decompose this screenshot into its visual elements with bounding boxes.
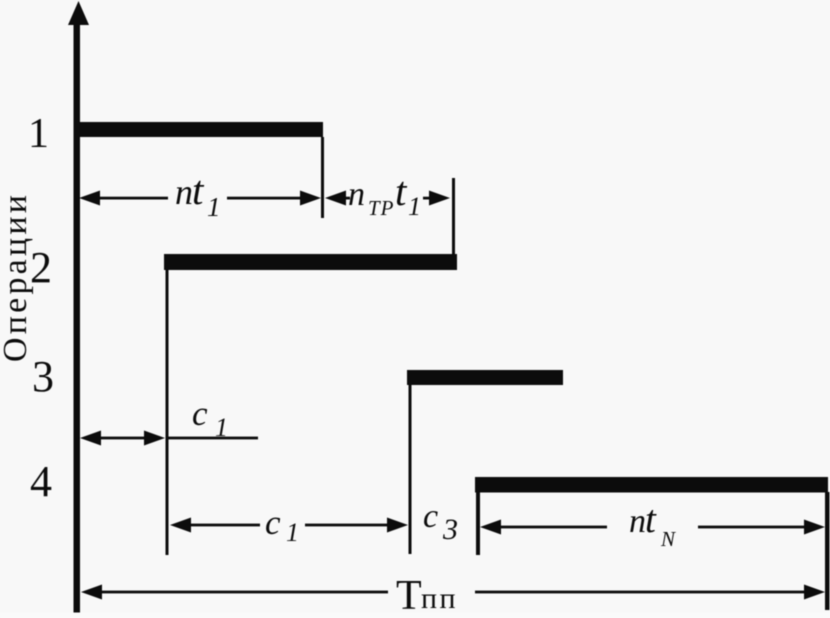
svg-text:1: 1 [408, 192, 421, 221]
arrow c1 (short): line [95, 437, 150, 440]
arrow ntr t1: line stubs [342, 197, 350, 200]
drop line from bar2 start [166, 270, 169, 555]
svg-text:N: N [660, 527, 676, 551]
svg-text:Операции: Операции [0, 192, 34, 362]
svg-text:Т: Т [396, 573, 422, 618]
arrow c1 short: right head [144, 431, 165, 446]
svg-text:c: c [423, 498, 438, 535]
svg-text:c: c [265, 503, 281, 542]
arrow ntr t1: right head [429, 191, 450, 206]
drop line from bar3 start [409, 385, 412, 554]
drop line at x453 to bar2 [452, 178, 455, 254]
svg-text:n: n [175, 172, 193, 212]
y-axis line [74, 20, 81, 616]
svg-text:ТР: ТР [368, 196, 395, 220]
svg-text:t: t [645, 498, 657, 541]
arrow c1 lower: right head [387, 518, 408, 533]
svg-text:1: 1 [207, 192, 221, 222]
bar operation 3 [407, 370, 563, 385]
arrow ntN: right head [804, 520, 825, 535]
svg-text:1: 1 [286, 518, 299, 547]
arrow ntN: line segments [495, 526, 607, 529]
arrow Tpp: right head [804, 585, 825, 600]
svg-text:1: 1 [215, 413, 228, 442]
svg-text:c: c [192, 394, 208, 433]
c1 extension line [168, 437, 258, 440]
arrow Tpp: line segments [96, 591, 388, 594]
arrow c1 short: left head [80, 431, 101, 446]
arrow nt1: left head [79, 191, 100, 206]
arrow c1 (lower): line segments [185, 524, 260, 527]
svg-text:n: n [629, 503, 646, 540]
svg-text:4: 4 [30, 457, 52, 506]
drop line from bar1 end [321, 137, 324, 218]
svg-text:2: 2 [30, 243, 52, 292]
svg-text:n: n [348, 176, 365, 213]
bar operation 4 [475, 477, 828, 493]
svg-text:t: t [395, 168, 408, 214]
right edge line below bar4 [825, 492, 830, 610]
bar operation 2 [164, 254, 457, 270]
arrow nt1: line segments [94, 197, 168, 200]
svg-text:3: 3 [32, 352, 54, 401]
y-axis arrowhead [68, 1, 89, 25]
svg-text:пп: пп [421, 582, 458, 615]
drop line from bar4 start [476, 492, 480, 555]
svg-text:t: t [192, 167, 205, 213]
arrow Tpp: left head [81, 585, 102, 600]
bar operation 1 [77, 122, 323, 137]
svg-text:3: 3 [442, 513, 458, 546]
arrow nt1: right head [300, 191, 321, 206]
svg-text:1: 1 [28, 111, 49, 157]
faint bottom edge band [0, 613, 830, 618]
arrow ntr t1: left head [325, 191, 346, 206]
arrow c1 lower: left head [170, 518, 191, 533]
arrow ntN: left head [480, 520, 501, 535]
